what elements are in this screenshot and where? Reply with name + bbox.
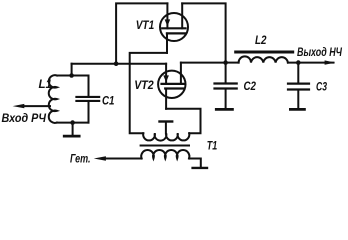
wire C1 bottom lead bbox=[88, 102, 90, 123]
wire stub: source bus down to tank top bbox=[71, 64, 73, 76]
svg-text:Гет.: Гет. bbox=[70, 151, 91, 165]
svg-text:C2: C2 bbox=[244, 79, 257, 93]
ground (C2) bbox=[216, 108, 232, 111]
wire tank top: L1 top to C1 top lead bbox=[57, 75, 89, 77]
node E: output / C3 junction bbox=[296, 60, 301, 65]
capacitor C3 bbox=[288, 63, 309, 109]
ground (T1 center tap, pointing up) bbox=[160, 122, 173, 134]
svg-text:VT1: VT1 bbox=[136, 18, 155, 32]
transformer T1 lower winding bbox=[141, 150, 189, 158]
heterodyne input arrow (Гет.) bbox=[94, 156, 142, 160]
wire VT2 drain to drain node bbox=[181, 62, 226, 64]
svg-text:Вход РЧ: Вход РЧ bbox=[2, 111, 47, 125]
node C: tank bottom ground junction bbox=[70, 120, 75, 125]
svg-text:VT2: VT2 bbox=[134, 78, 154, 92]
wire T1 lower right end to ground bbox=[189, 159, 201, 167]
wire C1 top lead bbox=[88, 76, 90, 96]
capacitor C1 bbox=[76, 97, 99, 101]
svg-text:Выход НЧ: Выход НЧ bbox=[297, 45, 342, 59]
output arrow (Выход НЧ) bbox=[325, 60, 336, 64]
ground (C3) bbox=[290, 108, 304, 111]
transistor VT1 bbox=[160, 3, 188, 53]
svg-text:C1: C1 bbox=[102, 93, 115, 107]
svg-text:C3: C3 bbox=[316, 79, 327, 93]
wire VT1 gate to T1 upper winding left end bbox=[130, 53, 167, 133]
node A: source bus / left vertical junction bbox=[114, 61, 119, 66]
transformer T1 upper winding bbox=[143, 133, 189, 140]
svg-text:L1: L1 bbox=[39, 77, 53, 91]
capacitor C2 bbox=[215, 63, 237, 109]
wire VT2 gate to T1 upper winding right end bbox=[166, 109, 200, 134]
ground (tank bottom) bbox=[64, 123, 79, 137]
wire tank bottom: L1 bottom to C1 bottom lead bbox=[57, 122, 89, 124]
svg-text:L2: L2 bbox=[255, 33, 267, 47]
input arrow (Вход РЧ) bbox=[13, 104, 50, 108]
node D: drain junction bbox=[223, 60, 228, 65]
transistor VT2 bbox=[158, 63, 185, 109]
transformer T1 core (dashed) bbox=[141, 145, 189, 147]
ground (T1 lower right) bbox=[193, 167, 207, 169]
inductor L2 core bar bbox=[236, 51, 293, 54]
wire source bus: tank stub to VT2 source bbox=[72, 63, 167, 65]
svg-text:T1: T1 bbox=[207, 139, 218, 153]
wire L2 to output arrow bbox=[288, 62, 334, 64]
inductor L2 bbox=[239, 56, 288, 62]
wire drain node to L2 bbox=[226, 62, 239, 64]
inductor L1 bbox=[49, 75, 57, 123]
wire top-right: VT1 drain to drain node bbox=[182, 3, 225, 62]
node B: tank top stub junction bbox=[69, 73, 74, 78]
wire top-left: VT1 source to source-node vertical bbox=[116, 3, 167, 63]
